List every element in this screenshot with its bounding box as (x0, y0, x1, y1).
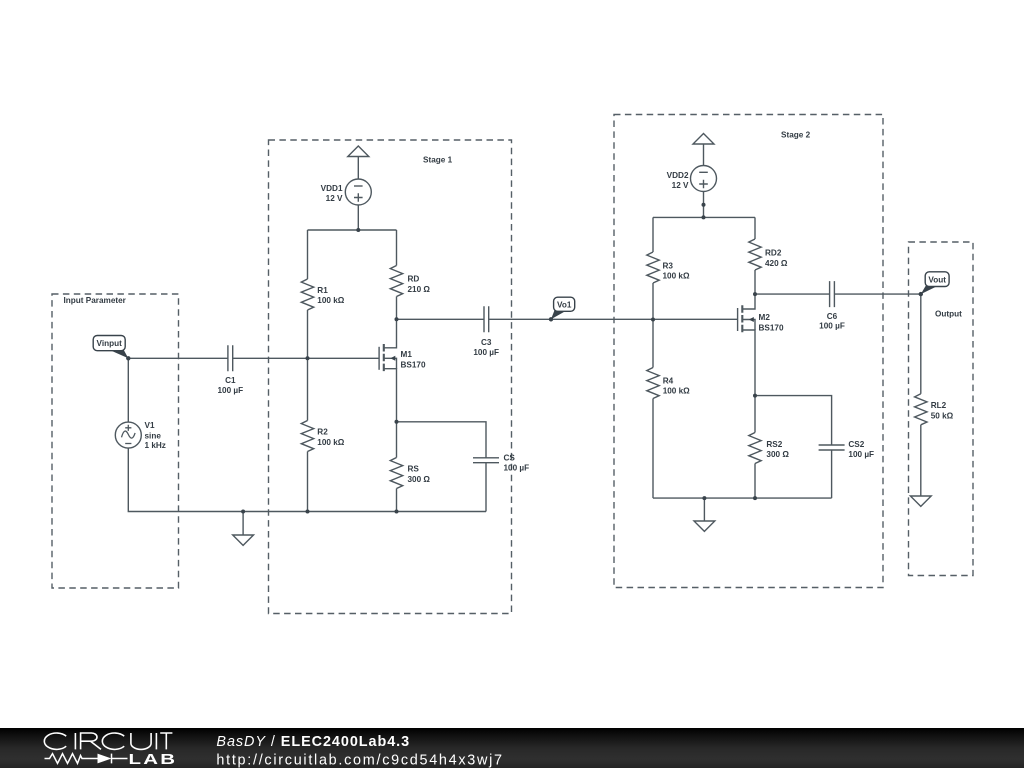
svg-text:VDD2: VDD2 (667, 171, 689, 180)
svg-text:Stage 2: Stage 2 (781, 131, 811, 140)
svg-text:50 kΩ: 50 kΩ (931, 411, 954, 420)
svg-text:CS: CS (504, 454, 516, 463)
svg-text:BS170: BS170 (759, 323, 784, 332)
svg-text:R4: R4 (663, 376, 674, 385)
svg-text:Vout: Vout (928, 275, 946, 284)
svg-text:C1: C1 (225, 376, 236, 385)
svg-text:100 µF: 100 µF (819, 322, 845, 331)
svg-text:100 kΩ: 100 kΩ (663, 387, 690, 396)
svg-text:RS: RS (408, 465, 420, 474)
svg-text:BS170: BS170 (401, 360, 426, 369)
svg-text:BasDY / ELEC2400Lab4.3: BasDY / ELEC2400Lab4.3 (216, 734, 410, 750)
svg-text:100 µF: 100 µF (848, 450, 874, 459)
svg-text:C3: C3 (481, 338, 492, 347)
svg-text:R1: R1 (317, 286, 328, 295)
svg-text:1 kHz: 1 kHz (145, 441, 166, 450)
svg-text:100 µF: 100 µF (473, 348, 499, 357)
svg-text:RD: RD (408, 275, 420, 284)
svg-text:V1: V1 (145, 421, 155, 430)
svg-text:Output: Output (935, 310, 962, 319)
svg-text:100 kΩ: 100 kΩ (663, 272, 690, 281)
svg-text:Stage 1: Stage 1 (423, 156, 453, 165)
svg-text:R2: R2 (317, 428, 328, 437)
svg-text:100 kΩ: 100 kΩ (317, 296, 344, 305)
svg-text:100 µF: 100 µF (217, 386, 243, 395)
svg-text:12 V: 12 V (672, 181, 689, 190)
svg-text:300 Ω: 300 Ω (766, 450, 789, 459)
svg-text:LAB: LAB (129, 751, 178, 767)
svg-text:300 Ω: 300 Ω (408, 475, 431, 484)
svg-text:R3: R3 (663, 261, 674, 270)
svg-text:M1: M1 (401, 350, 413, 359)
svg-text:Vo1: Vo1 (557, 300, 572, 309)
svg-text:Input Parameter: Input Parameter (64, 296, 127, 305)
svg-text:VDD1: VDD1 (321, 184, 343, 193)
svg-text:C6: C6 (827, 312, 838, 321)
svg-text:100 µF: 100 µF (504, 463, 530, 472)
svg-text:RD2: RD2 (765, 249, 782, 258)
svg-text:210 Ω: 210 Ω (408, 285, 431, 294)
svg-text:420 Ω: 420 Ω (765, 259, 788, 268)
svg-text:http://circuitlab.com/c9cd54h4: http://circuitlab.com/c9cd54h4x3wj7 (216, 752, 503, 768)
svg-text:Vinput: Vinput (97, 339, 123, 348)
svg-text:M2: M2 (759, 313, 771, 322)
svg-text:RL2: RL2 (931, 401, 947, 410)
svg-text:12 V: 12 V (326, 194, 343, 203)
svg-text:CS2: CS2 (848, 440, 864, 449)
svg-text:sine: sine (145, 431, 162, 440)
svg-text:100 kΩ: 100 kΩ (317, 438, 344, 447)
svg-text:RS2: RS2 (766, 440, 782, 449)
